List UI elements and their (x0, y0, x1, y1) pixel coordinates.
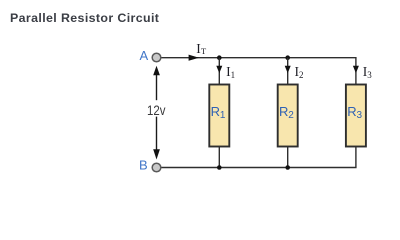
junction dot bottom R2 (285, 165, 290, 170)
resistor R3 (346, 85, 366, 147)
wire branch R1 top (218, 58, 220, 84)
label R1 (211, 104, 226, 121)
svg-text:A: A (140, 48, 149, 63)
wire bottom (B to below R3) (161, 147, 356, 168)
junction dot top R1 (217, 55, 222, 60)
node B label (139, 157, 148, 172)
svg-text:3: 3 (367, 70, 372, 80)
wire branch R2 top (287, 58, 289, 84)
current arrow I1 (216, 66, 222, 74)
svg-text:R: R (279, 104, 288, 119)
svg-text:R: R (347, 104, 356, 119)
voltage source arrow down (153, 117, 160, 160)
svg-text:2: 2 (299, 70, 304, 80)
svg-text:Parallel Resistor Circuit: Parallel Resistor Circuit (10, 11, 159, 25)
svg-text:3: 3 (357, 110, 363, 121)
resistor R2 (278, 85, 298, 147)
wire branch R1 bottom (218, 147, 220, 168)
wire top (A to corner above R3) (161, 58, 356, 84)
svg-text:B: B (139, 157, 148, 172)
label I3 (363, 64, 373, 80)
junction dot top R2 (285, 55, 290, 60)
svg-text:1: 1 (231, 70, 236, 80)
current arrow I2 (285, 66, 291, 74)
label I2 (295, 64, 304, 80)
svg-text:12v: 12v (147, 103, 166, 118)
resistor R1 (209, 85, 229, 147)
node A (152, 53, 161, 62)
label IT (196, 41, 207, 56)
node A label (140, 48, 149, 63)
label 12v (147, 103, 166, 118)
current arrow I3 (353, 66, 359, 74)
voltage source arrow up (153, 66, 160, 101)
svg-text:2: 2 (288, 110, 294, 121)
label R2 (279, 104, 294, 121)
title (10, 11, 159, 25)
node B (152, 163, 161, 172)
svg-text:R: R (211, 104, 220, 119)
junction dot bottom R1 (217, 165, 222, 170)
current arrow IT (189, 55, 199, 61)
svg-text:T: T (201, 46, 207, 56)
label I1 (226, 64, 235, 80)
label R3 (347, 104, 362, 121)
svg-text:1: 1 (220, 110, 226, 121)
wire branch R2 bottom (287, 147, 289, 168)
